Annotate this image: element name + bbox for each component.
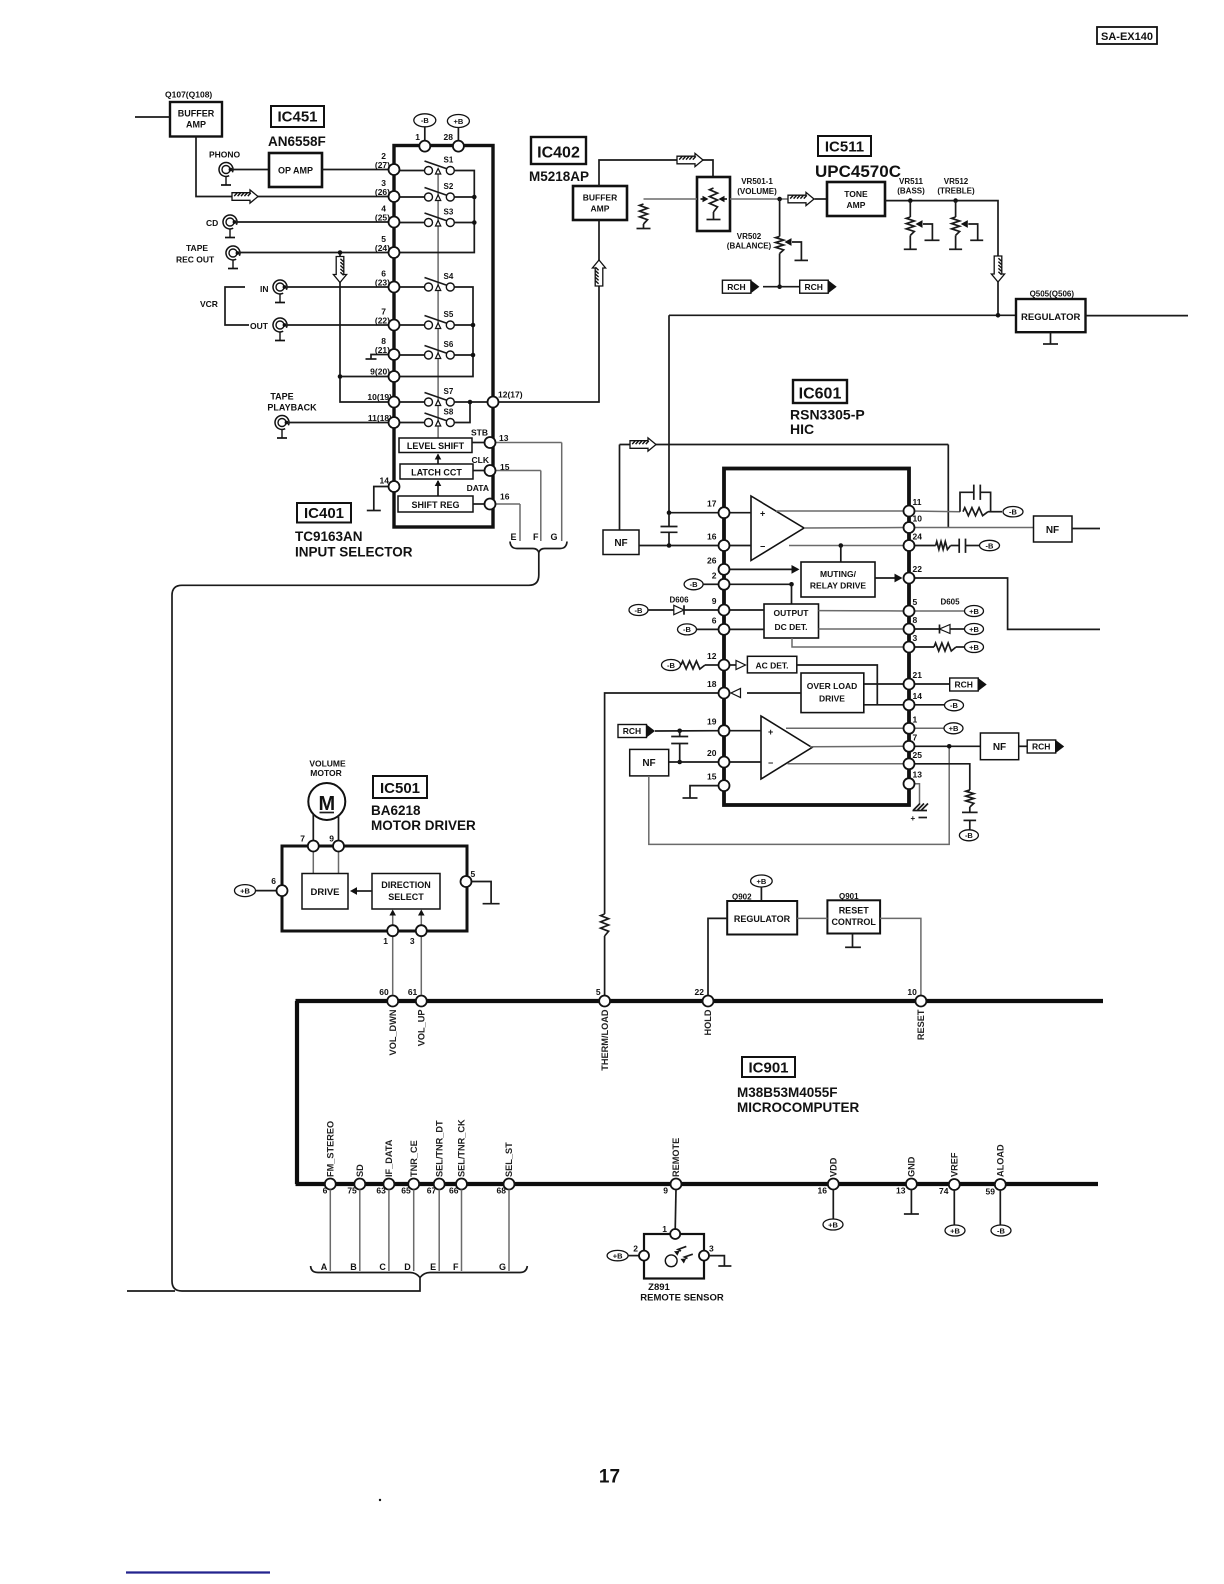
svg-text:TAPE: TAPE (186, 243, 208, 253)
switch S5 (399, 324, 425, 326)
wire into buffer amp (135, 116, 170, 118)
wire pin 26 to muting (729, 568, 798, 570)
wire pin 22 output (909, 578, 1100, 629)
RCH flag left (763, 286, 780, 288)
IC501 pin 5 (461, 876, 472, 887)
wire pin1 to bus 60 (392, 936, 394, 995)
pin 14 (389, 481, 400, 492)
svg-text:IF_DATA: IF_DATA (384, 1139, 394, 1177)
svg-text:STB: STB (471, 428, 488, 438)
svg-text:MUTING/: MUTING/ (820, 569, 857, 579)
wire NF out (1072, 528, 1100, 530)
svg-text:16: 16 (818, 1186, 828, 1196)
svg-text:15: 15 (500, 462, 510, 472)
svg-text:DC DET.: DC DET. (774, 622, 807, 632)
wire VR501 to tone amp (730, 198, 789, 200)
svg-text:SD: SD (355, 1164, 365, 1177)
+B supply Q902 (751, 875, 773, 887)
ac det block (729, 664, 736, 666)
svg-text:IC401: IC401 (304, 505, 344, 522)
svg-text:(BASS): (BASS) (897, 187, 925, 196)
muting/relay drive block (801, 562, 875, 597)
svg-text:M38B53M4055F: M38B53M4055F (737, 1085, 838, 1100)
IC501 label box (373, 776, 427, 798)
IC901 pin 13 GND (906, 1179, 917, 1190)
ground at Z891 pin 3 (709, 1256, 724, 1266)
IC451 label box (271, 106, 324, 127)
svg-text:VREF: VREF (950, 1152, 960, 1177)
switch control line (437, 170, 439, 438)
svg-text:(VOLUME): (VOLUME) (737, 187, 777, 196)
svg-text:7: 7 (300, 834, 305, 844)
svg-text:10: 10 (913, 514, 923, 524)
NF feedback loop to pin 7 (649, 746, 949, 844)
brace A-G tuner bus (311, 1266, 528, 1278)
svg-text:Z891: Z891 (648, 1282, 670, 1293)
svg-text:22: 22 (913, 564, 923, 574)
svg-text:RCH: RCH (623, 726, 641, 736)
svg-text:MICROCOMPUTER: MICROCOMPUTER (737, 1100, 859, 1115)
wire NF box to top line (619, 445, 621, 531)
IC901 bottom bus (296, 1182, 1099, 1186)
svg-text:1: 1 (913, 714, 918, 724)
svg-text:G: G (550, 532, 557, 542)
IC901 pin 75 SD (354, 1179, 365, 1190)
svg-text:RCH: RCH (1032, 742, 1050, 752)
svg-text:+B: +B (969, 625, 979, 634)
wire ac det to overload (797, 665, 878, 705)
IC901 left edge (295, 1001, 299, 1184)
svg-text:M5218AP: M5218AP (529, 169, 589, 184)
svg-text:SHIFT REG: SHIFT REG (411, 500, 459, 510)
svg-text:RESET: RESET (839, 906, 870, 916)
svg-text:IC901: IC901 (748, 1060, 788, 1077)
pin 15 CLK (485, 465, 496, 476)
model number box SA-EX140 (1097, 27, 1157, 44)
wire stub left (127, 1290, 175, 1292)
IC501 pin 3 (416, 925, 427, 936)
resistor to ground at VR501 input (644, 198, 698, 200)
+B pin 1 (909, 727, 944, 729)
svg-text:9: 9 (712, 596, 717, 606)
svg-text:G: G (499, 1262, 506, 1272)
IC601 label box (793, 380, 847, 403)
svg-text:28: 28 (444, 132, 454, 142)
svg-text:UPC4570C: UPC4570C (815, 162, 901, 181)
svg-text:GND: GND (907, 1156, 917, 1177)
pin 11 R//C to -B (909, 510, 960, 513)
capacitor pin19-pin20 (677, 729, 682, 734)
+B supply IC401 pin28 (447, 115, 469, 128)
switch S8 (399, 422, 425, 424)
svg-text:Q505(Q506): Q505(Q506) (1030, 290, 1075, 299)
svg-text:D605: D605 (940, 598, 960, 607)
svg-text:6: 6 (323, 1186, 328, 1196)
signal arrow phono line (232, 190, 258, 203)
-B into pin 6 (678, 624, 697, 635)
wire IC401 pin12 to IC402 input (499, 220, 600, 402)
wire rec out down to pin 10(19) (340, 253, 389, 403)
IC901 label box (742, 1057, 795, 1077)
svg-text:IC601: IC601 (799, 386, 842, 403)
svg-text:-B: -B (986, 541, 994, 550)
svg-text:+B: +B (949, 724, 959, 733)
svg-text:22: 22 (695, 987, 705, 997)
svg-text:1: 1 (662, 1224, 667, 1234)
svg-text:SEL_ST: SEL_ST (504, 1142, 514, 1177)
IC901 pin 74 VREF (949, 1179, 960, 1190)
wire op-amp B output to pin 7 (810, 745, 904, 748)
NF box upper (603, 530, 639, 555)
wire phono to op amp (231, 169, 269, 171)
wire tape rec out to pin 5 (240, 252, 389, 254)
wire tone amp to regulator and IC601 (669, 314, 1016, 316)
svg-text:FM_STEREO: FM_STEREO (326, 1121, 336, 1177)
pin 12(17) (488, 397, 499, 408)
svg-text:VR511: VR511 (899, 177, 924, 186)
motor M501 (308, 783, 345, 820)
IC901 pin 60 VOL_DWN (387, 996, 398, 1007)
regulator Q902 box (727, 901, 797, 935)
IC901 pin 5 THERM/LOAD (599, 996, 610, 1007)
svg-text:BA6218: BA6218 (371, 803, 421, 818)
pins 1,3 control inputs (392, 911, 394, 926)
svg-text:7: 7 (913, 732, 918, 742)
svg-text:NF: NF (614, 538, 627, 549)
wire pin 25 (788, 763, 905, 765)
svg-text:S2: S2 (444, 182, 454, 191)
tone amp output wire (885, 201, 998, 256)
pin 15 ground (690, 786, 719, 798)
CD jack (223, 215, 237, 238)
pin 7 to NF and RCH out (909, 745, 980, 747)
pin 28 (453, 141, 464, 152)
Z891 pin 1 (670, 1229, 680, 1239)
wire CD to pin 4 (237, 221, 389, 223)
E F G drop wires (519, 504, 521, 541)
wire op amp to pin 2 (322, 169, 389, 171)
IC901 pin 63 IF_DATA (383, 1179, 394, 1190)
svg-text:NF: NF (1046, 525, 1059, 536)
Z891 pin 3 (699, 1251, 709, 1261)
-B supply IC401 pin1 (414, 114, 436, 127)
wire overload to pin 18 (747, 692, 801, 694)
IC501 pin 1 (387, 925, 398, 936)
svg-text:OUTPUT: OUTPUT (774, 608, 810, 618)
svg-text:12(17): 12(17) (498, 390, 523, 400)
svg-text:+B: +B (969, 643, 979, 652)
svg-text:24: 24 (913, 532, 923, 542)
level shift block (399, 438, 472, 453)
svg-text:16: 16 (500, 492, 510, 502)
svg-text:-B: -B (950, 701, 958, 710)
svg-text:OP AMP: OP AMP (278, 166, 313, 176)
svg-text:67: 67 (427, 1186, 437, 1196)
svg-text:11: 11 (913, 497, 922, 507)
VR501-1 volume pot box (697, 177, 730, 231)
svg-text:C: C (379, 1262, 386, 1272)
svg-text:61: 61 (408, 987, 418, 997)
RCH flag pin 21 (909, 683, 950, 685)
brace EFG control bus (510, 542, 567, 553)
-B pin 14 (909, 704, 944, 706)
output dc det block (764, 604, 819, 638)
svg-text:OUT: OUT (250, 321, 269, 331)
svg-text:CLK: CLK (472, 455, 490, 465)
wire Q107 out to IC401 pin 3 (196, 137, 389, 197)
IC901 pin 10 RESET (915, 996, 926, 1007)
svg-text:A: A (321, 1262, 328, 1272)
wire regulator to HOLD pin 22 (708, 918, 727, 995)
svg-text:-B: -B (1009, 508, 1017, 517)
svg-text:CD: CD (206, 218, 218, 228)
wire VCR in to pin 6 (287, 286, 389, 288)
svg-text:+: + (911, 814, 916, 823)
wire tape playback to pin 11 (289, 422, 389, 424)
svg-text:RESET: RESET (916, 1009, 926, 1040)
svg-text:(TREBLE): (TREBLE) (937, 187, 975, 196)
wire regulator to reset control (797, 917, 827, 919)
wire VCR out to pin 7 (287, 324, 389, 326)
NF box Lch output (1034, 516, 1073, 542)
wire overload to pin 21 (864, 683, 904, 685)
IC901 pin 6 FM_STEREO (325, 1179, 336, 1190)
svg-text:SA-EX140: SA-EX140 (1101, 31, 1153, 43)
IC901 pin 65 TNR_CE (408, 1179, 419, 1190)
IC401 label box (297, 503, 351, 523)
wire volume down to pin 17 (669, 512, 719, 514)
volume wiper arrows (703, 196, 709, 203)
regulator Q505 box (1016, 299, 1086, 332)
switch S1 (399, 170, 425, 172)
wire op-amp A to pin 11 (776, 510, 904, 512)
wire NF to pin 16 (639, 545, 719, 547)
IC402 label box (531, 137, 586, 164)
svg-text:BUFFER: BUFFER (178, 109, 215, 119)
VCR out jack (273, 318, 287, 341)
svg-text:26: 26 (707, 555, 717, 565)
svg-text:16: 16 (707, 532, 717, 542)
svg-text:IC402: IC402 (537, 145, 580, 162)
svg-text:−: − (760, 542, 765, 552)
wire to muting drive (840, 546, 842, 563)
switch S6 (399, 354, 425, 356)
IC901 pin 9 REMOTE (671, 1179, 682, 1190)
svg-text:RCH: RCH (727, 282, 745, 292)
resistor pin 3 to +B (909, 646, 934, 648)
wire IC402 out to VR501 (599, 160, 713, 186)
svg-text:3: 3 (410, 936, 415, 946)
direction select block (372, 874, 440, 910)
svg-text:-B: -B (683, 625, 691, 634)
svg-text:17: 17 (599, 1467, 620, 1488)
IC901 pin 22 HOLD (703, 996, 714, 1007)
svg-text:9: 9 (663, 1186, 668, 1196)
wire NF line down to pin 10 (947, 445, 949, 528)
svg-text:IC511: IC511 (825, 139, 864, 156)
svg-text:PLAYBACK: PLAYBACK (267, 403, 317, 413)
switch S4 (399, 286, 425, 288)
svg-text:IC451: IC451 (277, 109, 317, 126)
IC511 label box (818, 136, 871, 156)
svg-text:HOLD: HOLD (703, 1009, 713, 1035)
buffer amp Q107 box (170, 102, 222, 137)
switch S2 (399, 196, 425, 198)
svg-text:S8: S8 (444, 408, 454, 417)
svg-text:B: B (350, 1262, 357, 1272)
svg-text:-B: -B (667, 661, 675, 670)
svg-text:BUFFER: BUFFER (583, 193, 617, 203)
blue footer line (126, 1571, 270, 1573)
svg-text:1: 1 (415, 132, 420, 142)
svg-text:DATA: DATA (467, 483, 489, 493)
svg-text:D: D (404, 1262, 411, 1272)
svg-text:+B: +B (828, 1220, 838, 1229)
svg-text:RELAY DRIVE: RELAY DRIVE (810, 581, 867, 591)
IC501 BA6218 body (282, 846, 467, 931)
wire reset control to RESET pin 10 (880, 918, 921, 995)
svg-text:74: 74 (939, 1186, 949, 1196)
svg-text:RCH: RCH (954, 680, 972, 690)
VR502 balance pot (779, 199, 781, 236)
wire overload to pin 14 (864, 704, 904, 706)
pin 25 R-C to -B (909, 764, 970, 790)
tape rec out jack (226, 246, 240, 269)
svg-text:IN: IN (260, 284, 269, 294)
svg-text:60: 60 (379, 987, 389, 997)
svg-text:SEL/TNR_CK: SEL/TNR_CK (457, 1119, 467, 1177)
svg-text:HIC: HIC (790, 421, 814, 437)
svg-text:VR512: VR512 (944, 177, 969, 186)
IC901 pin 66 SEL/TNR_CK (456, 1179, 467, 1190)
IC601 hybrid IC body (724, 469, 909, 806)
svg-text:9(20): 9(20) (370, 367, 390, 377)
svg-text:75: 75 (347, 1186, 357, 1196)
svg-text:3: 3 (913, 633, 918, 643)
op-amp B (Rch power amp) (761, 716, 812, 779)
op-amp A (Lch power amp) (751, 496, 804, 561)
-B into pin 2 (684, 579, 703, 590)
switch S3 (399, 222, 425, 224)
svg-text:VOLUME: VOLUME (309, 759, 346, 769)
svg-text:-B: -B (965, 831, 973, 840)
svg-text:AMP: AMP (847, 200, 866, 210)
svg-text:17: 17 (707, 499, 717, 509)
ground under reset control (852, 934, 854, 947)
pin 13 chassis ground (909, 784, 920, 804)
signal arrow down to tape (333, 257, 346, 283)
svg-text:REMOTE SENSOR: REMOTE SENSOR (640, 1293, 724, 1304)
svg-text:AMP: AMP (591, 204, 610, 214)
reset control Q901 box (827, 900, 880, 933)
IC601 pins left (719, 507, 730, 518)
svg-text:LATCH CCT: LATCH CCT (411, 468, 462, 478)
svg-text:20: 20 (707, 748, 717, 758)
S4-S6 output bus (399, 287, 473, 377)
svg-text:NF: NF (642, 758, 655, 769)
svg-text:21: 21 (913, 670, 923, 680)
VCR in jack (273, 280, 287, 303)
svg-text:+: + (760, 509, 765, 519)
tone amp IC511 box (827, 182, 885, 216)
svg-text:+B: +B (757, 877, 767, 886)
svg-text:6: 6 (712, 615, 717, 625)
svg-text:65: 65 (401, 1186, 411, 1196)
svg-text:13: 13 (896, 1186, 906, 1196)
svg-text:59: 59 (986, 1187, 996, 1197)
signal arrow down from tone amp (991, 256, 1004, 282)
svg-text:1: 1 (383, 936, 388, 946)
svg-text:S7: S7 (444, 387, 454, 396)
wire EFG bus to microcomputer A-G bus (172, 553, 539, 1292)
svg-text:REC OUT: REC OUT (176, 255, 215, 265)
svg-text:INPUT SELECTOR: INPUT SELECTOR (295, 545, 413, 560)
wire pin3 to bus 61 (420, 936, 422, 995)
svg-text:S5: S5 (444, 310, 454, 319)
svg-text:6: 6 (271, 876, 276, 886)
+B into pin 6 (235, 885, 256, 897)
svg-text:+: + (768, 727, 773, 737)
svg-text:REGULATOR: REGULATOR (734, 914, 791, 924)
svg-text:66: 66 (449, 1186, 459, 1196)
dc det outputs (819, 610, 905, 612)
svg-text:E: E (430, 1262, 436, 1272)
svg-text:REGULATOR: REGULATOR (1021, 312, 1080, 323)
svg-text:5: 5 (471, 869, 476, 879)
pin 13 STB (485, 437, 496, 448)
wire regulator output (1086, 315, 1189, 317)
ground inside VR501 (713, 212, 715, 219)
svg-text:68: 68 (497, 1186, 507, 1196)
ground under regulator (1050, 332, 1052, 343)
svg-text:12: 12 (707, 651, 717, 661)
svg-text:13: 13 (913, 770, 923, 780)
svg-text:Q107(Q108): Q107(Q108) (165, 90, 212, 100)
svg-text:TNR_CE: TNR_CE (409, 1140, 419, 1177)
svg-text:DRIVE: DRIVE (819, 694, 845, 704)
IC901 pin 67 SEL/TNR_DT (434, 1179, 445, 1190)
wire to pin 9(20) (340, 376, 389, 378)
svg-text:S4: S4 (444, 272, 454, 281)
svg-text:THERM/LOAD: THERM/LOAD (600, 1009, 610, 1071)
pin 8(21) ground (371, 355, 389, 360)
svg-text:14: 14 (380, 476, 390, 486)
svg-text:TONE: TONE (844, 189, 868, 199)
tape playback jack (275, 415, 289, 438)
wire pin 24 (789, 545, 904, 547)
svg-text:S6: S6 (444, 340, 454, 349)
svg-text:AMP: AMP (186, 120, 206, 130)
svg-text:+B: +B (613, 1251, 623, 1260)
svg-text:MOTOR: MOTOR (310, 768, 341, 778)
svg-text:SELECT: SELECT (388, 892, 424, 902)
svg-text:+B: +B (454, 117, 464, 126)
wire pin 18 to therm/load (605, 693, 719, 914)
svg-text:63: 63 (376, 1186, 386, 1196)
S7-S8 output bus to pin 12(17) (454, 401, 489, 403)
svg-text:DRIVE: DRIVE (310, 887, 339, 898)
svg-text:RCH: RCH (804, 282, 822, 292)
IC401 TC9163AN body (394, 146, 493, 528)
svg-text:VDD: VDD (829, 1157, 839, 1177)
IC901 pin 61 VOL_UP (416, 996, 427, 1007)
IC901 pin 59 ALOAD (995, 1179, 1006, 1190)
svg-text:IC501: IC501 (380, 780, 420, 797)
svg-text:5: 5 (596, 987, 601, 997)
svg-text:OVER LOAD: OVER LOAD (807, 681, 858, 691)
svg-text:D606: D606 (669, 596, 689, 605)
svg-text:TC9163AN: TC9163AN (295, 529, 363, 544)
